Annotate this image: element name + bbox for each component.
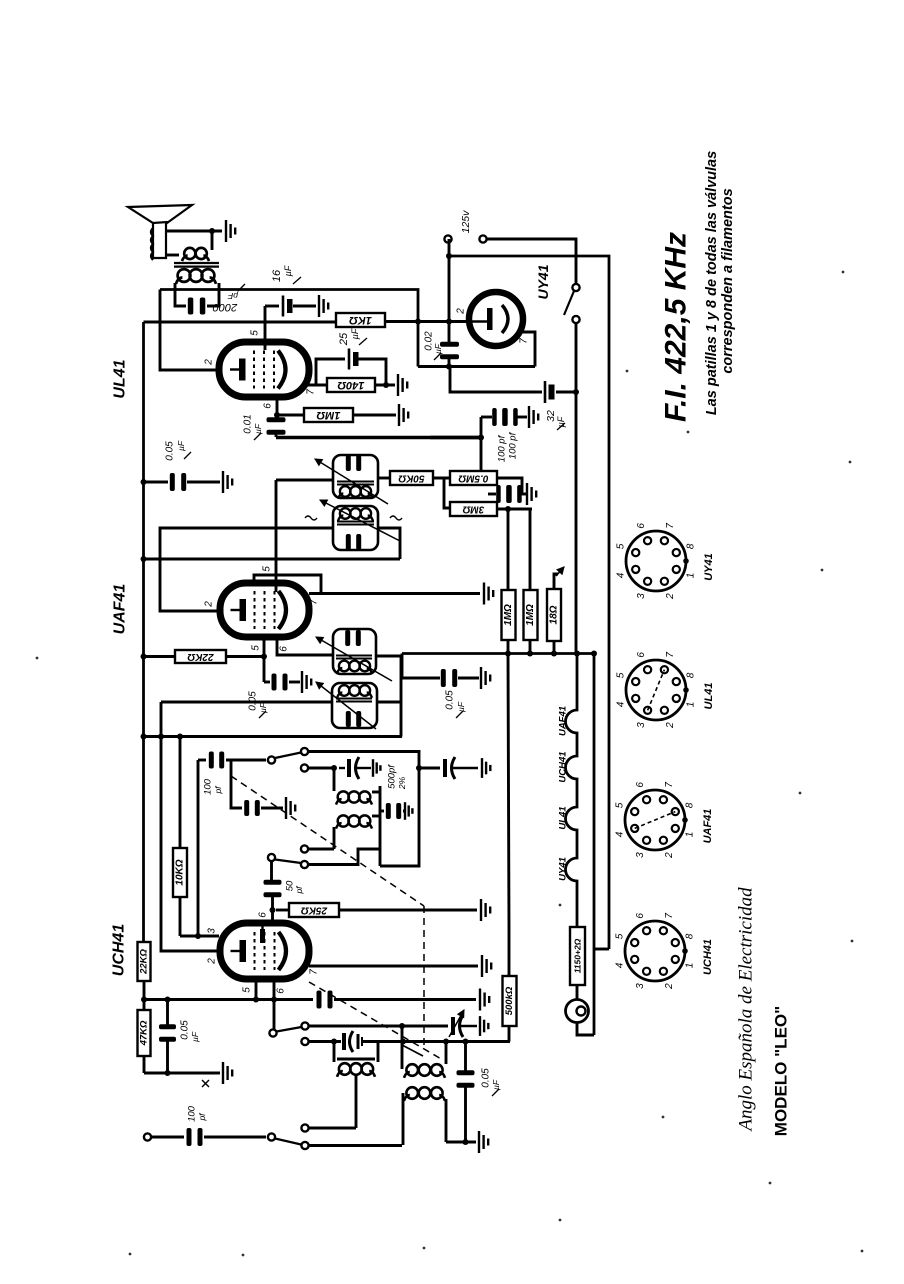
wire coilF left down xyxy=(333,827,336,849)
contact S1d-2 xyxy=(301,1142,308,1149)
coil osc E xyxy=(336,791,372,804)
wire 100pF tap xyxy=(430,436,481,439)
capacitor 0.02uF xyxy=(440,342,459,359)
wire volume feed xyxy=(508,654,509,931)
capacitor 0.05uF b xyxy=(272,674,288,691)
contact S1a-2 xyxy=(301,764,308,771)
wire 16uF to ground xyxy=(293,305,316,308)
wire pin7 UY41 xyxy=(520,332,535,367)
svg-text:UAF41: UAF41 xyxy=(558,706,569,736)
svg-text:5: 5 xyxy=(614,802,625,808)
wire bus corner xyxy=(401,654,404,679)
svg-text:5: 5 xyxy=(615,543,626,549)
coil antenna 2a xyxy=(404,1064,445,1078)
speaker LS xyxy=(128,205,192,260)
tube UCH41 xyxy=(220,923,309,979)
wire padder drop xyxy=(231,760,242,808)
svg-text:3: 3 xyxy=(635,852,646,858)
arrow trimmer IFT1c xyxy=(316,637,392,681)
wire to secondary xyxy=(211,231,214,250)
svg-text:µF: µF xyxy=(456,701,466,712)
junction xyxy=(331,765,337,771)
svg-text:2000: 2000 xyxy=(212,301,238,313)
junction xyxy=(463,1139,469,1145)
capacitor 0.05uF series xyxy=(317,991,333,1009)
wire pin7 UCH41 xyxy=(309,965,478,968)
socket UCH41 xyxy=(625,921,688,981)
junction xyxy=(261,654,267,660)
capacitor 25uF xyxy=(349,349,359,370)
switch blade S1a xyxy=(275,753,301,759)
wire 50K to 0.5M xyxy=(433,477,450,480)
wire cathode bus xyxy=(144,998,314,1001)
capacitor 500pF 2% xyxy=(339,757,371,779)
svg-text:5: 5 xyxy=(614,933,625,939)
svg-text:µF: µF xyxy=(491,1079,501,1090)
wire antenna xyxy=(151,1136,184,1139)
arrow + xyxy=(556,567,564,576)
svg-text:140Ω: 140Ω xyxy=(337,379,364,391)
svg-text:Anglo Española de Electricidad: Anglo Española de Electricidad xyxy=(736,887,757,1133)
svg-text:7: 7 xyxy=(306,389,317,395)
svg-text:1: 1 xyxy=(686,702,697,708)
svg-text:UL41: UL41 xyxy=(558,806,569,829)
svg-text:0.01: 0.01 xyxy=(243,414,254,433)
svg-text:1KΩ: 1KΩ xyxy=(349,314,372,326)
IF transformer T2 can B xyxy=(333,506,378,550)
wire return rail xyxy=(593,654,596,1036)
junction xyxy=(478,435,484,441)
svg-text:UY41: UY41 xyxy=(703,553,715,581)
wire 100pF to switch xyxy=(226,759,266,762)
contact S1c-2 xyxy=(301,1038,308,1045)
contact xyxy=(268,854,275,861)
wire cathode bus right xyxy=(334,998,476,1001)
capacitor 0.05uF a xyxy=(170,473,186,491)
svg-text:6: 6 xyxy=(279,646,290,652)
ground 500pF pad xyxy=(405,802,412,820)
contact S1d-1 xyxy=(301,1124,308,1131)
arrow trimmer IFT2a xyxy=(315,459,388,504)
wire grid drop xyxy=(197,760,200,936)
IF transformer T1 can C xyxy=(333,629,376,674)
wire rail to 0.05 a xyxy=(144,481,169,484)
wire 25uF loop xyxy=(316,359,345,385)
svg-text:µF: µF xyxy=(350,328,360,339)
wire IFT2b to AVC xyxy=(378,528,400,559)
triode grid bar UCH41 xyxy=(260,924,265,943)
wire to osc coil E xyxy=(333,768,336,791)
svg-text:7: 7 xyxy=(665,652,676,658)
wire IFT2 to 50K xyxy=(379,477,390,480)
junction xyxy=(416,765,422,771)
coil IFT2a xyxy=(338,486,373,499)
ground 100pF pad xyxy=(286,797,295,819)
wire S1b lower xyxy=(308,849,380,865)
svg-text:µF: µF xyxy=(190,1031,200,1042)
junction xyxy=(209,228,215,234)
junction xyxy=(141,479,147,485)
junction xyxy=(165,1070,171,1076)
svg-text:6: 6 xyxy=(276,988,287,994)
wire coil2 right down xyxy=(445,1099,448,1142)
junction xyxy=(446,364,452,370)
ground cathode xyxy=(223,1062,232,1084)
wire pin6 to 1M xyxy=(277,414,304,417)
wire 140R to ground xyxy=(375,384,395,387)
ground 16uF xyxy=(319,295,328,317)
junction xyxy=(271,997,277,1003)
contact xyxy=(572,284,579,291)
resistor 1M UL41 xyxy=(304,408,353,422)
wire cathode bottom xyxy=(144,1072,220,1075)
wire AVC drop 1 xyxy=(507,509,510,590)
svg-text:6: 6 xyxy=(636,652,647,658)
wire 10K bottom xyxy=(179,897,182,936)
ground tuning 1 xyxy=(480,1016,488,1036)
socket UL41 xyxy=(626,660,689,720)
svg-text:1150+2Ω: 1150+2Ω xyxy=(573,938,583,973)
wire 0.01 to bus xyxy=(275,433,278,437)
svg-text:50KΩ: 50KΩ xyxy=(398,473,424,484)
wire pair2 to ground xyxy=(519,493,526,496)
wire rail xyxy=(142,941,145,944)
svg-text:16: 16 xyxy=(271,269,283,282)
svg-text:2: 2 xyxy=(665,593,676,600)
wire canD left down xyxy=(160,702,163,737)
svg-text:8: 8 xyxy=(686,672,697,678)
wire trimmer to bus xyxy=(362,1040,510,1043)
junction xyxy=(573,389,579,395)
svg-text:µF: µF xyxy=(258,702,268,713)
junction xyxy=(591,651,597,657)
junction xyxy=(331,1039,337,1045)
svg-text:µF: µF xyxy=(283,265,293,276)
svg-text:6: 6 xyxy=(258,912,269,918)
svg-text:UY41: UY41 xyxy=(535,264,551,299)
svg-text:pF: pF xyxy=(227,291,239,301)
svg-text:2: 2 xyxy=(456,308,467,315)
tube UAF41 xyxy=(220,583,309,637)
svg-text:3: 3 xyxy=(636,722,647,728)
ground 100pF pair1 xyxy=(529,406,538,428)
wire to 100pF grid xyxy=(198,759,206,762)
svg-text:25KΩ: 25KΩ xyxy=(301,905,328,916)
contact xyxy=(268,756,275,763)
wire 3M node xyxy=(497,508,532,511)
core IFT2a xyxy=(337,482,374,485)
wire coil2 left down xyxy=(402,1093,405,1145)
wire ant coil left xyxy=(333,1042,336,1063)
junction xyxy=(274,412,280,418)
wire to 0.05 c xyxy=(166,1000,169,1027)
resistor 18R xyxy=(547,589,561,641)
junction xyxy=(415,319,421,325)
wire pin6 UAF41 to IFT1 xyxy=(277,637,333,655)
wire 1Ma down xyxy=(507,640,510,654)
svg-text:F.I. 422,5 KHz: F.I. 422,5 KHz xyxy=(660,232,693,422)
wire pin5 UL41 xyxy=(264,306,267,350)
coil antenna 1 xyxy=(337,1063,375,1077)
ground 500pF xyxy=(373,759,380,777)
contact xyxy=(144,1133,151,1140)
contact xyxy=(479,235,486,242)
svg-text:0.5MΩ: 0.5MΩ xyxy=(458,473,488,484)
junction xyxy=(141,997,147,1003)
wire to lamp xyxy=(576,985,579,1000)
svg-text:5: 5 xyxy=(250,330,261,336)
svg-text:3: 3 xyxy=(636,593,647,599)
wire 32uF to rail xyxy=(556,391,576,394)
wire lamp bottom xyxy=(577,1023,594,1036)
wire pin7 UAF41 xyxy=(309,592,480,595)
svg-text:1: 1 xyxy=(686,573,697,579)
svg-text:MODELO "LEO": MODELO "LEO" xyxy=(772,1006,791,1136)
arrow trimmer IFT2b xyxy=(320,500,400,541)
wire 50pF to grid6 xyxy=(271,896,274,924)
mark winding a xyxy=(305,516,317,520)
contact xyxy=(444,235,451,242)
contact xyxy=(572,316,579,323)
capacitor 16uF xyxy=(283,296,293,317)
capacitor 50pF xyxy=(264,880,282,897)
svg-text:2%: 2% xyxy=(397,776,407,790)
resistor 1M a xyxy=(502,590,516,640)
wire osc top xyxy=(308,752,419,867)
svg-text:5: 5 xyxy=(262,566,273,572)
svg-text:3: 3 xyxy=(635,983,646,989)
wire AVC line xyxy=(144,558,401,561)
resistor 10K xyxy=(173,848,187,897)
socket UAF41 xyxy=(625,790,688,850)
wire tuned line xyxy=(309,1025,449,1028)
capacitor IFT2a xyxy=(346,455,361,471)
wire coil2 bottom xyxy=(446,1141,476,1144)
svg-text:8: 8 xyxy=(685,933,696,939)
capacitor tuning 1 xyxy=(453,1015,477,1037)
junction xyxy=(574,651,580,657)
wire primary right xyxy=(207,283,219,306)
junction xyxy=(158,734,164,740)
svg-text:4: 4 xyxy=(615,572,626,578)
wire S1b to coilF xyxy=(308,848,334,851)
wire 0.05a ground xyxy=(187,481,220,484)
svg-text:47KΩ: 47KΩ xyxy=(139,1020,150,1046)
svg-text:7: 7 xyxy=(665,523,676,529)
capacitor 0.01uF xyxy=(267,417,286,435)
svg-text:UCH41: UCH41 xyxy=(111,924,128,977)
socket UY41 xyxy=(626,531,689,591)
wire pin6 UL41 xyxy=(276,398,279,415)
svg-text:6: 6 xyxy=(636,523,647,529)
junction xyxy=(399,1023,405,1029)
svg-text:1: 1 xyxy=(685,963,696,969)
wire 22K to pin5 xyxy=(226,655,264,658)
switch blade S1c xyxy=(277,1027,302,1032)
capacitor 2000pF xyxy=(188,298,206,315)
capacitor 100pF pad xyxy=(244,800,260,816)
junction xyxy=(141,556,147,562)
capacitor 500pF pad xyxy=(386,803,401,819)
wire osc sec top xyxy=(401,1026,404,1069)
svg-text:8: 8 xyxy=(686,543,697,549)
coil IFT1d xyxy=(337,685,372,698)
resistor 0.5M xyxy=(450,471,497,485)
dashed gang 3 xyxy=(309,982,443,1060)
dashed gang 2 xyxy=(423,906,425,1049)
svg-text:100 pf: 100 pf xyxy=(508,431,519,459)
contact S1a-1 xyxy=(301,748,308,755)
wire to 16uF xyxy=(265,305,279,308)
svg-text:500kΩ: 500kΩ xyxy=(504,986,515,1015)
wire to contact xyxy=(309,1127,357,1130)
wire 0.05d top xyxy=(464,1042,467,1072)
wire 0.02 down xyxy=(448,358,451,367)
wire heater rail upper xyxy=(575,392,578,653)
svg-text:2: 2 xyxy=(207,958,218,965)
svg-text:UCH41: UCH41 xyxy=(558,751,569,782)
wire to 100pF pair1 xyxy=(481,416,492,419)
wire 18R down xyxy=(553,641,556,654)
wire 10K top xyxy=(179,737,182,849)
switch blade S1d xyxy=(275,1139,301,1145)
svg-text:0.05: 0.05 xyxy=(165,441,176,461)
junction xyxy=(141,654,147,660)
wire 25K to ground xyxy=(339,909,477,912)
svg-text:µF: µF xyxy=(433,343,443,354)
svg-text:8: 8 xyxy=(685,802,696,808)
wire UL41 grid pin2 xyxy=(160,290,217,371)
capacitor padder osc xyxy=(445,757,478,779)
wire AF bus xyxy=(276,436,481,439)
coil T-out secondary xyxy=(182,248,209,261)
wire heater chain xyxy=(566,654,577,928)
wire 25K line xyxy=(276,909,289,912)
wire screen bus UAF41 xyxy=(144,655,176,658)
wire pin5 UAF41 down xyxy=(263,637,266,682)
mark x xyxy=(202,1080,209,1087)
contact S1c-1 xyxy=(301,1022,308,1029)
junction xyxy=(505,506,511,512)
svg-text:corresponden a filamentos: corresponden a filamentos xyxy=(720,188,736,373)
wire 0.5M to pair2 xyxy=(497,478,522,494)
contact S1b-1 xyxy=(301,845,308,852)
svg-text:6: 6 xyxy=(263,403,274,409)
capacitor 0.05uF det xyxy=(441,669,457,687)
wire 47K down xyxy=(143,1056,146,1073)
wire pair1 to ground xyxy=(515,416,527,419)
arrow tuning 1 xyxy=(449,1010,464,1037)
ground 1M xyxy=(399,404,408,426)
svg-text:7: 7 xyxy=(309,969,320,975)
svg-text:18Ω: 18Ω xyxy=(549,605,560,624)
specks xyxy=(36,271,864,1257)
svg-text:1: 1 xyxy=(685,832,696,838)
wire 1M to ground xyxy=(353,414,396,417)
junction xyxy=(400,1039,406,1045)
capacitor 0.05uF c xyxy=(159,1024,176,1042)
svg-text:7: 7 xyxy=(664,913,675,919)
switch blade mains xyxy=(564,291,574,315)
svg-text:22KΩ: 22KΩ xyxy=(139,949,150,975)
wire canC right xyxy=(376,656,401,737)
wire pad2 gnd xyxy=(403,810,404,813)
svg-text:22KΩ: 22KΩ xyxy=(187,651,214,662)
wire AVC drop 2 xyxy=(529,509,532,590)
wire B+ line xyxy=(160,290,418,367)
svg-text:6: 6 xyxy=(635,913,646,919)
resistor 1K xyxy=(336,313,385,327)
ground 0.05 det xyxy=(481,667,490,689)
capacitor IFT1c xyxy=(345,630,361,646)
svg-text:UL41: UL41 xyxy=(703,683,715,710)
wire ant coil tap xyxy=(355,1076,358,1128)
wire IFT2a to grid xyxy=(276,479,333,482)
mark winding b xyxy=(390,516,402,520)
wire osc grid tap xyxy=(308,767,334,770)
wire bottom bus xyxy=(402,652,594,655)
svg-text:5: 5 xyxy=(251,645,262,651)
resistor 25K xyxy=(289,903,339,917)
svg-text:4: 4 xyxy=(614,831,625,837)
IF transformer T1 can D xyxy=(332,683,377,728)
svg-text:2: 2 xyxy=(664,852,675,859)
wire canD right xyxy=(377,701,401,704)
wire pin5 UCH41 xyxy=(255,979,258,1000)
wire ant coil right xyxy=(377,1042,380,1063)
junction xyxy=(446,253,452,259)
ground 100pF pair2 xyxy=(527,483,536,505)
capacitor 0.05uF d xyxy=(457,1070,475,1088)
wire pin3 UCH41 xyxy=(180,935,219,938)
resistor 500K xyxy=(508,930,511,976)
capacitor 100pF ant xyxy=(187,1128,203,1146)
wire 18R arrow xyxy=(554,574,558,589)
svg-text:5: 5 xyxy=(242,987,253,993)
wire pad ground xyxy=(261,807,283,810)
junction xyxy=(253,997,259,1003)
wire osc padder xyxy=(419,767,440,770)
junction xyxy=(383,382,389,388)
contact S1b-2 xyxy=(301,861,308,868)
wire grid UAF41 xyxy=(275,480,278,592)
svg-text:125v: 125v xyxy=(460,210,472,234)
resistor 140R xyxy=(327,378,375,392)
svg-text:2: 2 xyxy=(664,983,675,990)
arrow trimmer IFT1d xyxy=(316,682,376,729)
wire speaker to secondary xyxy=(166,254,179,257)
coil IFT1c xyxy=(337,661,372,674)
wire 0.05 det ground xyxy=(458,677,479,680)
wire mains to switch xyxy=(487,239,576,284)
svg-text:1MΩ: 1MΩ xyxy=(525,604,536,626)
ground 0.05 b xyxy=(302,671,311,693)
wire pair2 stub xyxy=(488,493,496,496)
wire S1b to 50pF xyxy=(270,861,273,881)
ground pin7 UCH41 xyxy=(482,955,491,977)
svg-text:4: 4 xyxy=(614,962,625,968)
wire osc tuned line xyxy=(309,1040,342,1043)
svg-text:7: 7 xyxy=(519,338,530,344)
wire 500K down xyxy=(508,1026,511,1042)
capacitor 100pF b xyxy=(503,408,518,426)
svg-text:0.05: 0.05 xyxy=(180,1020,191,1040)
core IFT1c xyxy=(336,656,372,659)
wire to 500pF pad xyxy=(380,810,384,813)
svg-text:UY41: UY41 xyxy=(558,857,569,881)
junction xyxy=(165,997,171,1003)
svg-text:UL41: UL41 xyxy=(112,359,129,398)
